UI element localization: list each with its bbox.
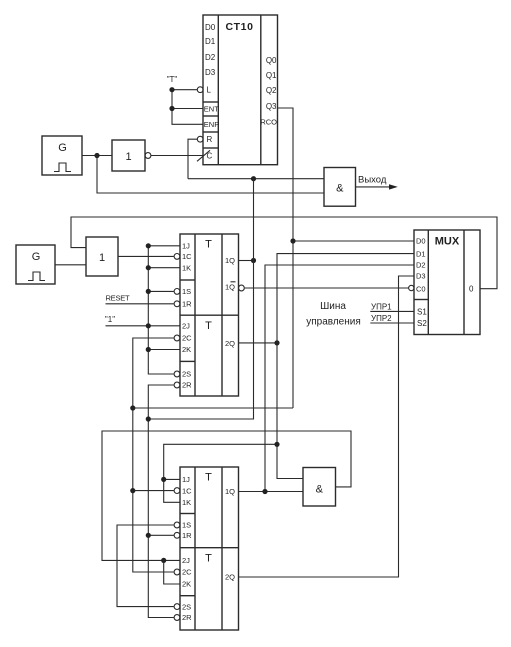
svg-text:1C: 1C — [182, 486, 192, 495]
node T-net ENT junction — [169, 106, 174, 111]
pin C edge-triggered slash — [197, 150, 213, 161]
wire G1 node down to AND1 lower input — [97, 156, 324, 194]
svg-text:2C: 2C — [182, 568, 192, 577]
svg-text:D1: D1 — [205, 37, 216, 46]
svg-text:2R: 2R — [182, 613, 192, 622]
svg-text:T: T — [205, 553, 212, 565]
pin FF1 1Q-bar with bubble — [225, 282, 244, 292]
wire R input from AND1 input rail — [188, 139, 197, 179]
node R-net meets 2R rail — [146, 416, 151, 421]
node FF1 2J junction — [146, 323, 151, 328]
svg-text:S2: S2 — [417, 319, 427, 328]
svg-text:MUX: MUX — [435, 236, 460, 248]
wire FF1 2R down the R net rail — [148, 385, 174, 618]
svg-text:D3: D3 — [205, 68, 216, 77]
svg-text:2S: 2S — [182, 370, 191, 379]
svg-text:T: T — [205, 239, 212, 251]
pin FF2 2S bubble — [174, 602, 191, 611]
wire FF2 1Q to AND2 input — [239, 491, 304, 493]
flip-flop U4 dual T (upper) — [180, 234, 239, 396]
svg-text:1Q: 1Q — [225, 282, 235, 291]
svg-text:2R: 2R — [182, 381, 192, 390]
svg-text:&: & — [316, 484, 324, 496]
wire MUX D2 net vertical down to FF2 1Q — [265, 265, 414, 492]
node T-net L junction — [169, 87, 174, 92]
or gate U3 "1" — [86, 237, 118, 276]
node FF2 1J junction — [161, 477, 166, 482]
wire AND1 upper input rail from R net — [188, 178, 324, 180]
svg-text:D2: D2 — [205, 53, 216, 62]
wire УПР2 to S2 — [370, 322, 414, 324]
svg-text:2K: 2K — [182, 345, 191, 354]
svg-text:Q1: Q1 — [266, 71, 277, 80]
node FF1 1J junction — [146, 243, 151, 248]
wire clock rail y=408 from 2C bus to Q3 vertical — [133, 407, 293, 409]
generator G1 — [42, 136, 82, 175]
pin FF1 2S bubble — [174, 370, 191, 379]
pin FF2 2C bubble — [174, 568, 192, 577]
wire FF2 2J to 2K link — [164, 560, 180, 584]
wire AND1 output with arrow — [356, 184, 398, 189]
svg-text:УПР1: УПР1 — [371, 302, 392, 311]
pin L with bubble — [197, 86, 211, 95]
svg-text:1Q: 1Q — [225, 487, 235, 496]
wire Q3 output of CT10 down to MUX D0 and clock rail — [278, 108, 294, 408]
svg-text:D1: D1 — [416, 249, 426, 258]
wire G1 output to inverter 1 — [82, 155, 112, 157]
node FF1 1Q junction — [251, 258, 256, 263]
wire G2 output to OR gate — [55, 264, 86, 266]
wire УПР1 to S1 — [370, 310, 414, 312]
flip-flop U6 dual T (lower) — [180, 467, 239, 630]
svg-text:C0: C0 — [416, 284, 426, 293]
svg-text:УПР2: УПР2 — [371, 314, 392, 323]
pin FF2 1R bubble — [174, 531, 192, 540]
svg-text:1K: 1K — [182, 498, 191, 507]
node FF2 2J junction — [161, 558, 166, 563]
node D1 rail junction — [274, 442, 279, 447]
pin FF1 1R bubble — [174, 300, 192, 309]
svg-text:Выход: Выход — [358, 175, 387, 186]
svg-text:RCO: RCO — [260, 117, 277, 126]
svg-text:RESET: RESET — [106, 294, 130, 303]
wire R-net vertical bus x=253.5 — [148, 179, 253, 419]
svg-text:2Q: 2Q — [225, 573, 235, 582]
svg-text:CT10: CT10 — [225, 21, 253, 33]
pin MUX C0 with bubble — [409, 284, 426, 293]
wire MUX feedback long rail y=217 — [71, 217, 497, 289]
svg-text:Шина: Шина — [320, 301, 346, 312]
svg-text:2K: 2K — [182, 580, 191, 589]
svg-text:Q2: Q2 — [266, 86, 277, 95]
pin FF1 1C bubble — [174, 252, 192, 261]
counter U2 CT10 — [203, 15, 278, 165]
node FF2 1C junction on clock bus — [130, 488, 135, 493]
svg-text:2Q: 2Q — [225, 339, 235, 348]
wire AND2 output feedback to FF2 2J rail — [102, 431, 351, 560]
wire "1" rail bus to FF1 J K S pins — [106, 246, 181, 374]
svg-text:T: T — [205, 320, 212, 332]
node Q3 rail to D0 junction — [290, 238, 295, 243]
svg-text:G: G — [58, 142, 67, 154]
wire D1 net rail to FF2 1J — [164, 444, 277, 502]
node FF1 1S junction — [146, 289, 151, 294]
svg-text:управления: управления — [306, 317, 361, 328]
svg-text:1K: 1K — [182, 263, 191, 272]
svg-text:D0: D0 — [416, 237, 426, 246]
svg-text:&: & — [336, 183, 344, 195]
node FF1 2Q junction on D1 vertical — [274, 340, 279, 345]
node FF2 1Q junction with D2 net — [262, 489, 267, 494]
wire FF2 1R from R-net rail — [148, 534, 174, 536]
svg-text:1J: 1J — [182, 475, 190, 484]
svg-text:D2: D2 — [416, 261, 426, 270]
svg-text:2J: 2J — [182, 322, 190, 331]
svg-text:1C: 1C — [182, 252, 192, 261]
svg-text:"1": "1" — [105, 315, 115, 324]
and gate D1 "&" output stage — [324, 168, 356, 207]
svg-text:1S: 1S — [182, 521, 191, 530]
wire FF1 1Q to R-net vertical — [239, 260, 254, 262]
svg-text:G: G — [32, 251, 41, 263]
svg-text:1S: 1S — [182, 287, 191, 296]
svg-text:ENP: ENP — [204, 120, 219, 129]
svg-text:T: T — [205, 472, 212, 484]
svg-text:1Q: 1Q — [225, 256, 235, 265]
wire FF2 1C from clock bus — [133, 490, 174, 492]
and gate D2 "&" lower — [303, 468, 336, 507]
svg-text:1: 1 — [125, 151, 131, 163]
svg-text:1R: 1R — [182, 300, 192, 309]
generator G2 — [16, 245, 55, 284]
svg-text:1: 1 — [99, 252, 105, 264]
svg-text:2C: 2C — [182, 334, 192, 343]
svg-text:2J: 2J — [182, 556, 190, 565]
pin FF2 2R bubble — [174, 613, 192, 622]
svg-text:Q3: Q3 — [266, 102, 277, 111]
pin FF2 1C bubble — [174, 486, 192, 495]
inverter U1 "1" — [112, 140, 151, 171]
pin FF2 1S bubble — [174, 521, 191, 530]
node AND1 upper input junction (R net) — [251, 176, 256, 181]
pin R with bubble — [197, 135, 212, 144]
svg-text:D3: D3 — [416, 272, 426, 281]
node FF1 2K junction — [146, 347, 151, 352]
wire MUX D3 net vertical down to FF2 2Q — [239, 276, 415, 577]
wire inverter output to CT10 C input — [151, 155, 203, 157]
node FF1 1K junction — [146, 265, 151, 270]
node FF2 1R junction — [146, 533, 151, 538]
svg-text:Q0: Q0 — [266, 56, 277, 65]
pin FF1 2C bubble — [174, 334, 192, 343]
wire FF1 1Q-bar to MUX C0 — [244, 287, 408, 289]
svg-text:S1: S1 — [417, 307, 427, 316]
wire RESET to FF1 1R — [106, 303, 174, 305]
svg-text:L: L — [207, 86, 212, 95]
wire U3 output to FF1 1C — [118, 255, 174, 257]
svg-text:2S: 2S — [182, 602, 191, 611]
svg-text:R: R — [207, 135, 213, 144]
wire FF1 2C from clock rail — [133, 338, 174, 572]
svg-text:D0: D0 — [205, 23, 216, 32]
pin FF1 1S bubble — [174, 287, 191, 296]
net label Шина управления — [306, 301, 361, 328]
svg-text:0: 0 — [469, 285, 474, 294]
svg-text:ENT: ENT — [204, 104, 219, 113]
node clock rail junction at 2C bus — [130, 405, 135, 410]
wire T-net to L ENT ENP — [172, 90, 203, 125]
wire MUX D0 from Q3 rail — [293, 240, 414, 242]
svg-text:1R: 1R — [182, 531, 192, 540]
wire FF2 1S 2S link — [117, 525, 174, 607]
svg-text:1J: 1J — [182, 242, 190, 251]
node G1 output junction — [94, 153, 99, 158]
wire MUX D1 net vertical down to AND2 input — [277, 254, 414, 479]
multiplexer U5 MUX — [414, 230, 480, 335]
wire FF1 2Q to MUX D1 vertical — [239, 342, 278, 344]
pin FF1 2R bubble — [174, 381, 192, 390]
svg-text:"T": "T" — [167, 75, 178, 84]
